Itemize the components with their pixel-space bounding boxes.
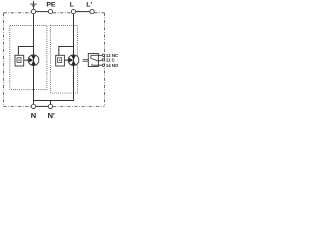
contact line 11 xyxy=(98,60,102,61)
wire N-prime riser xyxy=(50,101,52,105)
module 1 dotted outline xyxy=(10,25,47,89)
wire main left vertical xyxy=(33,14,35,105)
spark gap right xyxy=(68,55,79,66)
svg-text:L: L xyxy=(70,2,74,9)
wire trigger left xyxy=(18,47,33,56)
svg-text:14 NO: 14 NO xyxy=(106,63,119,68)
svg-text:11 C: 11 C xyxy=(106,57,115,62)
svg-text:PE: PE xyxy=(46,2,56,9)
terminal N xyxy=(31,104,35,108)
wire bottom bus xyxy=(34,100,74,102)
terminal PE xyxy=(48,9,52,13)
enclosure dash-dot border top xyxy=(4,12,105,14)
svg-text:N': N' xyxy=(48,111,55,120)
terminal N-prime xyxy=(48,104,52,108)
wire disconnector stub right xyxy=(64,59,68,61)
wire PE terminal pair xyxy=(36,11,49,13)
earth symbol xyxy=(30,1,36,9)
terminal 11 xyxy=(102,59,104,61)
terminal L xyxy=(71,9,75,13)
wire trigger right xyxy=(59,47,74,56)
enclosure dash-dot border right xyxy=(104,13,106,107)
contact line 12 xyxy=(91,55,103,58)
mechanical link symbol xyxy=(83,59,89,61)
enclosure dash-dot border bottom xyxy=(4,105,105,107)
terminal 12 xyxy=(102,54,104,56)
svg-text:L': L' xyxy=(86,2,92,9)
terminal 14 xyxy=(102,64,104,66)
wire main right vertical xyxy=(73,14,75,101)
contact line 14 xyxy=(92,64,103,65)
module 2 dotted outline xyxy=(50,25,77,93)
disconnector device left xyxy=(15,55,24,66)
remote signalling contact box xyxy=(88,54,98,67)
wire L terminal pair xyxy=(76,11,90,13)
terminal L-prime xyxy=(90,9,94,13)
changeover contact lever xyxy=(91,58,99,61)
terminal PE-earth xyxy=(31,9,35,13)
spark gap left xyxy=(28,55,39,66)
wire N terminal pair xyxy=(36,105,49,107)
svg-text:N: N xyxy=(31,111,36,120)
disconnector device right xyxy=(56,55,65,66)
enclosure dash-dot border left xyxy=(3,13,5,107)
wire disconnector stub left xyxy=(24,59,29,61)
